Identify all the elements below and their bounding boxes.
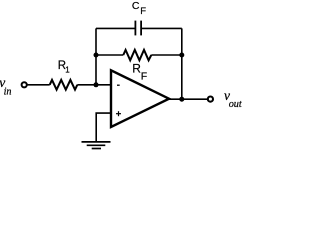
resistor R_F — [123, 50, 151, 60]
resistor R1 — [50, 80, 78, 90]
node v_out terminal — [208, 97, 213, 102]
label R_F — [132, 61, 147, 82]
svg-text:F: F — [141, 71, 147, 83]
wire: right feedback vertical — [181, 28, 183, 99]
capacitor C_F — [135, 21, 141, 36]
op-amp inverting pin mark — [117, 84, 120, 86]
wire: R_F row right — [151, 54, 182, 56]
v_in label — [0, 75, 12, 98]
svg-text:F: F — [140, 6, 146, 17]
junction: left R_F / C_F node — [94, 53, 99, 58]
node v_in terminal — [22, 82, 27, 87]
wire: R_F row left — [96, 54, 123, 56]
v_out label — [224, 88, 243, 110]
wire: left feedback vertical — [95, 28, 97, 84]
wire: R1 to inverting input — [77, 84, 111, 86]
junction: right R_F / C_F node — [179, 53, 184, 58]
wire: C_F row right — [141, 27, 182, 29]
junction: output node — [179, 97, 184, 102]
label C_F — [132, 0, 146, 17]
label R1 — [58, 60, 70, 74]
wire: output — [169, 98, 207, 100]
op-amp U1 — [111, 70, 169, 127]
junction: inverting input node — [94, 82, 99, 87]
svg-text:1: 1 — [65, 65, 70, 74]
ground — [82, 142, 111, 149]
wire: C_F row left — [96, 27, 135, 29]
svg-text:in: in — [4, 87, 12, 98]
wire: non-inverting input to ground — [96, 113, 111, 142]
svg-text:C: C — [132, 0, 140, 12]
svg-text:out: out — [229, 99, 242, 110]
wire: v_in to R1 — [27, 84, 49, 86]
op-amp non-inverting pin mark — [116, 111, 121, 116]
